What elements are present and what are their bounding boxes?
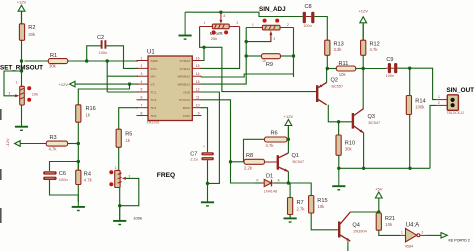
- svg-text:2.2u: 2.2u: [190, 157, 198, 162]
- svg-text:3: 3: [129, 175, 131, 179]
- svg-text:1k: 1k: [262, 59, 266, 63]
- svg-text:R2: R2: [28, 25, 35, 31]
- svg-text:AMSI: AMSI: [151, 59, 159, 63]
- svg-text:D1: D1: [266, 174, 273, 180]
- svg-text:10k: 10k: [318, 204, 326, 209]
- svg-text:6: 6: [141, 96, 143, 100]
- svg-text:3.3k: 3.3k: [334, 47, 343, 52]
- svg-text:1: 1: [438, 95, 440, 99]
- svg-text:Q4: Q4: [352, 223, 359, 229]
- svg-text:2N3904: 2N3904: [353, 230, 366, 234]
- svg-text:TR2: TR2: [151, 114, 157, 118]
- svg-text:14: 14: [196, 72, 200, 76]
- svg-text:XR2206: XR2206: [147, 121, 160, 125]
- svg-text:R9: R9: [266, 62, 273, 68]
- svg-text:100k: 100k: [133, 215, 142, 220]
- svg-text:1: 1: [141, 56, 143, 60]
- svg-text:SET_RMSOUT: SET_RMSOUT: [0, 64, 43, 71]
- svg-text:4: 4: [141, 80, 143, 84]
- svg-text:15: 15: [196, 64, 200, 68]
- svg-text:3: 3: [141, 72, 143, 76]
- svg-text:1: 1: [16, 81, 18, 85]
- svg-text:R1: R1: [50, 53, 57, 59]
- svg-text:4.7k: 4.7k: [266, 143, 275, 148]
- svg-text:+5V: +5V: [375, 187, 383, 192]
- svg-text:R3: R3: [50, 135, 57, 141]
- svg-text:4.7k: 4.7k: [49, 147, 58, 152]
- svg-text:100k: 100k: [415, 104, 425, 109]
- svg-text:TBLOCK-I2: TBLOCK-I2: [447, 111, 465, 115]
- svg-text:30k: 30k: [49, 64, 57, 69]
- svg-text:GND: GND: [183, 90, 191, 94]
- svg-text:8: 8: [141, 111, 143, 115]
- svg-text:25k: 25k: [211, 36, 217, 41]
- svg-text:WAVEA2: WAVEA2: [177, 75, 190, 79]
- svg-text:KE PORTD 2: KE PORTD 2: [449, 238, 470, 242]
- svg-text:100n: 100n: [303, 24, 311, 28]
- svg-text:BC547: BC547: [293, 160, 305, 164]
- svg-text:SIN_OUT: SIN_OUT: [446, 87, 474, 94]
- svg-text:10: 10: [196, 103, 200, 107]
- svg-text:11: 11: [196, 96, 200, 100]
- svg-text:TR1: TR1: [151, 106, 157, 110]
- svg-text:SYMA1: SYMA1: [180, 67, 191, 71]
- svg-text:3: 3: [9, 92, 11, 96]
- svg-text:2: 2: [438, 101, 440, 105]
- svg-text:STO: STO: [151, 67, 158, 71]
- svg-text:100n: 100n: [59, 177, 68, 182]
- svg-text:R11: R11: [339, 61, 349, 67]
- svg-text:FREQ: FREQ: [157, 172, 175, 179]
- svg-text:SYMA2: SYMA2: [180, 59, 191, 63]
- svg-text:30k: 30k: [28, 32, 36, 37]
- svg-text:SYNCO: SYNCO: [179, 98, 191, 102]
- svg-text:R16: R16: [86, 106, 96, 112]
- svg-text:+12V: +12V: [358, 9, 368, 14]
- svg-text:U4:A: U4:A: [406, 222, 419, 228]
- svg-text:+: +: [203, 145, 205, 149]
- svg-text:BC547: BC547: [369, 121, 381, 125]
- svg-text:2: 2: [237, 21, 239, 25]
- svg-text:VS: VS: [151, 82, 155, 86]
- svg-text:1N4148: 1N4148: [264, 189, 277, 193]
- svg-text:U1: U1: [147, 50, 155, 56]
- svg-text:13: 13: [196, 80, 200, 84]
- svg-text:BIAS: BIAS: [183, 106, 190, 110]
- svg-text:+12V: +12V: [59, 82, 69, 87]
- svg-text:100n: 100n: [99, 50, 108, 55]
- svg-text:2.7k: 2.7k: [297, 207, 306, 212]
- svg-text:SIN_ADJ: SIN_ADJ: [259, 6, 286, 13]
- svg-text:30k: 30k: [345, 146, 353, 151]
- svg-text:5: 5: [141, 88, 143, 92]
- svg-text:WAVEA1: WAVEA1: [177, 82, 190, 86]
- svg-text:C8: C8: [305, 4, 312, 10]
- svg-text:+12V: +12V: [284, 114, 294, 119]
- svg-text:10k: 10k: [385, 222, 393, 227]
- svg-text:100n: 100n: [386, 74, 394, 78]
- svg-text:3: 3: [223, 14, 225, 18]
- svg-text:10k: 10k: [339, 72, 347, 77]
- svg-text:12: 12: [196, 88, 200, 92]
- svg-text:C2: C2: [97, 35, 104, 41]
- svg-text:2.2k: 2.2k: [244, 166, 253, 171]
- svg-text:1: 1: [204, 21, 206, 25]
- svg-text:Q3: Q3: [368, 114, 375, 120]
- svg-text:4.7k: 4.7k: [84, 177, 93, 182]
- svg-text:2: 2: [422, 231, 424, 235]
- svg-text:1: 1: [401, 231, 403, 235]
- svg-text:Q1: Q1: [292, 153, 299, 159]
- svg-text:R6: R6: [271, 131, 278, 137]
- svg-text:FSKI: FSKI: [183, 114, 190, 118]
- svg-text:16: 16: [196, 56, 200, 60]
- svg-text:4584: 4584: [405, 245, 413, 249]
- svg-text:BC557: BC557: [332, 85, 344, 89]
- svg-text:R5: R5: [125, 132, 132, 138]
- svg-text:R7: R7: [297, 200, 304, 206]
- svg-text:R8: R8: [246, 153, 253, 159]
- svg-text:4.7k: 4.7k: [370, 47, 379, 52]
- svg-text:-12V: -12V: [5, 138, 10, 147]
- svg-text:1: 1: [115, 166, 117, 170]
- svg-text:10k: 10k: [32, 91, 38, 96]
- svg-text:Q2: Q2: [331, 78, 338, 84]
- svg-text:C9: C9: [386, 57, 393, 63]
- svg-text:9: 9: [198, 111, 200, 115]
- svg-text:MO: MO: [151, 75, 157, 79]
- svg-text:2: 2: [287, 23, 289, 27]
- svg-text:+12V: +12V: [17, 0, 27, 5]
- svg-text:TC2: TC2: [151, 98, 157, 102]
- svg-text:TC1: TC1: [151, 90, 157, 94]
- svg-text:3: 3: [273, 37, 275, 41]
- svg-text:2: 2: [141, 64, 143, 68]
- svg-text:7: 7: [141, 103, 143, 107]
- svg-text:1: 1: [252, 23, 254, 27]
